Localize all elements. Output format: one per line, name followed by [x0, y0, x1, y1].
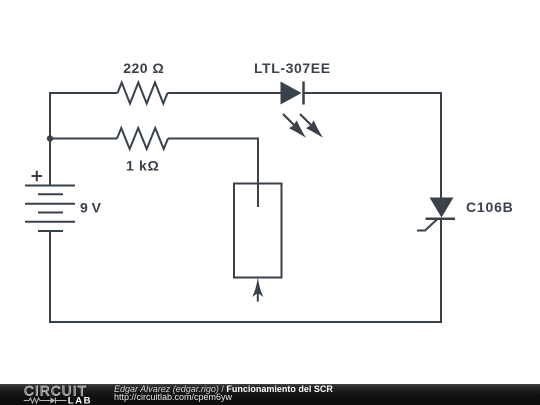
svg-text:C106B: C106B: [466, 199, 514, 215]
LED D1 cathode bar: [302, 82, 305, 105]
wire vertical into box SW1: [257, 138, 259, 208]
svg-text:LAB: LAB: [68, 396, 92, 405]
svg-text:1 kΩ: 1 kΩ: [126, 158, 160, 174]
SCR Q1 triangle (anode): [430, 198, 454, 218]
LED D1 light arrow 1: [283, 114, 306, 138]
resistor R2 1 kOhm: [117, 128, 168, 149]
resistor R1 220 Ohm: [118, 83, 168, 104]
wire top-left horizontal: [50, 92, 118, 94]
svg-text:LTL-307EE: LTL-307EE: [254, 60, 331, 76]
wire R2 to box corner: [168, 138, 258, 140]
LED D1 light arrow 2: [300, 114, 323, 138]
wire LED to top-right corner: [304, 92, 442, 94]
CircuitLab logo: [20, 384, 100, 405]
wire right vertical lower (SCR cathode to bottom wire): [440, 219, 442, 323]
wire left vertical upper (top wire to battery +): [49, 92, 51, 186]
svg-text:9 V: 9 V: [80, 200, 102, 216]
wire R1 to LED: [168, 92, 281, 94]
wire bottom horizontal: [49, 321, 442, 323]
wire left vertical lower (battery - to bottom wire): [49, 231, 51, 323]
SCR Q1 cathode bar: [426, 217, 456, 220]
node junction at battery branch: [47, 135, 53, 141]
SCR Q1 gate lead: [417, 219, 438, 231]
battery plus sign: [32, 171, 43, 182]
pushbutton box SW1: [234, 184, 282, 278]
footer bar: [0, 384, 540, 405]
svg-text:220 Ω: 220 Ω: [123, 60, 164, 76]
footer credit line 2: [114, 392, 232, 402]
battery V1 plates: [25, 186, 75, 232]
wire second branch horizontal left: [50, 138, 117, 140]
wire right vertical upper (LED to SCR anode): [440, 92, 442, 198]
LED D1 triangle: [281, 82, 302, 105]
pushbutton actuator arrow: [252, 277, 263, 302]
footer credit line 1: [114, 384, 333, 394]
